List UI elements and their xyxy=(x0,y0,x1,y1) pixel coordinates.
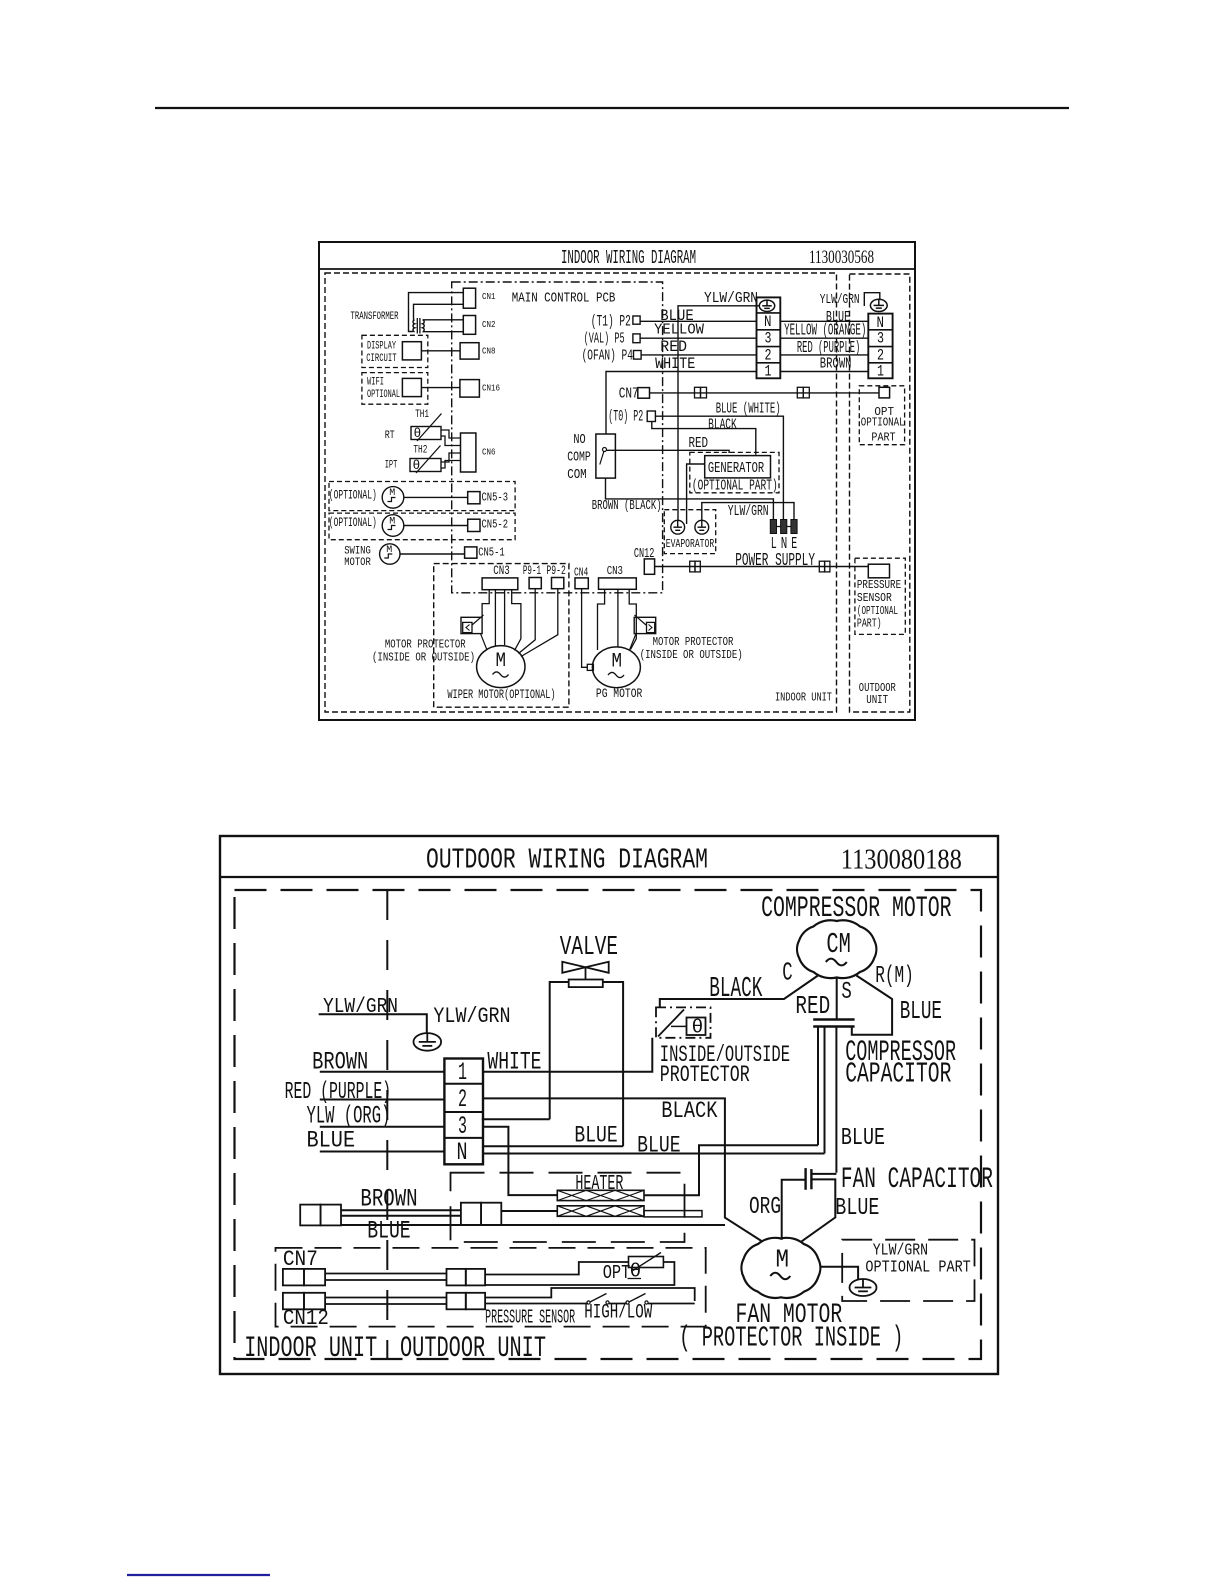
ORG wire to fan motor xyxy=(782,1180,806,1240)
svg-text:PART): PART) xyxy=(857,617,882,631)
CN12 connector xyxy=(283,1293,304,1310)
svg-text:CM: CM xyxy=(826,928,850,961)
svg-text:BLUE: BLUE xyxy=(900,997,942,1026)
wires thermistors to CN6 xyxy=(441,430,461,438)
svg-text:θ: θ xyxy=(630,1261,642,1283)
OPT optional part box xyxy=(859,386,904,445)
svg-text:S: S xyxy=(841,979,851,1006)
heater element 2 xyxy=(557,1206,644,1217)
svg-text:INDOOR UNIT: INDOOR UNIT xyxy=(244,1331,377,1365)
svg-text:BLACK: BLACK xyxy=(709,972,763,1005)
optional motor row CN5-2 xyxy=(329,513,515,540)
svg-text:CN1: CN1 xyxy=(482,291,496,302)
svg-text:(OPTIONAL: (OPTIONAL xyxy=(857,604,898,618)
WHITE wire to terminal 1 xyxy=(606,372,757,435)
earth ground outdoor xyxy=(414,1033,442,1051)
svg-text:(OFAN) P4: (OFAN) P4 xyxy=(582,349,633,365)
svg-text:YELLOW (ORANGE): YELLOW (ORANGE) xyxy=(784,321,866,340)
svg-text:FAN CAPACITOR: FAN CAPACITOR xyxy=(841,1162,993,1196)
svg-text:M: M xyxy=(389,515,395,526)
svg-text:CN3: CN3 xyxy=(607,564,623,578)
svg-text:MOTOR PROTECTOR: MOTOR PROTECTOR xyxy=(385,638,466,652)
svg-text:PROTECTOR: PROTECTOR xyxy=(660,1062,750,1088)
connector CN1 xyxy=(463,288,475,308)
row3 wire to heater xyxy=(483,1127,557,1195)
CN7/CN12 dashed box xyxy=(276,1248,706,1327)
svg-text:BLUE: BLUE xyxy=(841,1125,885,1152)
svg-text:3: 3 xyxy=(877,330,884,348)
svg-text:OUTDOOR WIRING DIAGRAM: OUTDOOR WIRING DIAGRAM xyxy=(426,844,708,877)
connector CN8 xyxy=(460,343,479,359)
OPT sensor wire xyxy=(485,1262,628,1275)
fan motor M xyxy=(741,1238,820,1298)
svg-text:M: M xyxy=(386,544,392,555)
svg-text:(T1) P2: (T1) P2 xyxy=(591,312,631,330)
svg-text:(OPTIONAL): (OPTIONAL) xyxy=(329,489,377,503)
indoor/outdoor separator dashed xyxy=(386,890,388,1359)
svg-text:P9-1: P9-1 xyxy=(523,564,541,578)
svg-text:GENERATOR: GENERATOR xyxy=(708,459,764,477)
svg-text:PART: PART xyxy=(871,431,895,445)
svg-text:HIGH/LOW: HIGH/LOW xyxy=(584,1301,652,1324)
YLW(ORG) wire xyxy=(320,1126,445,1128)
svg-text:ORG: ORG xyxy=(749,1194,781,1221)
outdoor dashed box xyxy=(235,890,982,1359)
svg-text:VALVE: VALVE xyxy=(560,932,618,962)
BLUE wire to terminal N xyxy=(640,320,756,322)
svg-text:θ: θ xyxy=(413,458,421,473)
svg-text:OPT: OPT xyxy=(603,1262,631,1284)
capacitor wire to fan capacitor xyxy=(835,1027,837,1173)
display circuit box xyxy=(362,335,428,367)
svg-text:CN5-2: CN5-2 xyxy=(482,518,509,532)
inline connector pair xyxy=(690,561,695,572)
BLUE(WHITE) wire to N plug xyxy=(655,416,783,519)
inline connector pair xyxy=(447,1269,466,1286)
fan motor ground wire xyxy=(820,1267,858,1279)
heater element 2 lead xyxy=(644,1211,702,1217)
R(M) wire to capacitor xyxy=(852,976,892,1035)
inline connector pair xyxy=(819,561,824,572)
bottom blue rule xyxy=(127,1574,270,1576)
outdoor unit dashed box (right strip) xyxy=(850,274,910,712)
RED(PURPLE) wire xyxy=(320,1099,445,1101)
wire display-CN8 xyxy=(421,350,460,352)
BLACK wire to generator xyxy=(652,422,756,455)
svg-text:1: 1 xyxy=(765,363,772,381)
BLUE wire to fan motor xyxy=(341,1224,725,1226)
connector P9-2 xyxy=(552,578,564,589)
svg-text:SENSOR: SENSOR xyxy=(857,591,892,605)
svg-text:( PROTECTOR INSIDE ): ( PROTECTOR INSIDE ) xyxy=(679,1322,903,1355)
compressor capacitor plates xyxy=(813,1018,854,1021)
YLW/GRN jumper right xyxy=(864,293,880,306)
YELLOW wire to terminal 3 xyxy=(640,337,756,339)
svg-text:INDOOR WIRING DIAGRAM: INDOOR WIRING DIAGRAM xyxy=(561,247,696,269)
BROWN(BLACK) wire to L plug xyxy=(606,478,774,519)
svg-text:TH2: TH2 xyxy=(413,445,427,457)
generator ground wire xyxy=(687,464,705,524)
indoor diagram outer frame xyxy=(319,242,915,720)
svg-text:NO: NO xyxy=(573,432,585,448)
heater dashed box xyxy=(451,1173,685,1242)
fan capacitor xyxy=(804,1168,806,1190)
connector CN4 xyxy=(575,578,588,589)
PG motor wires xyxy=(582,589,588,668)
svg-text:YLW/GRN: YLW/GRN xyxy=(820,293,860,308)
svg-text:CAPACITOR: CAPACITOR xyxy=(845,1058,951,1091)
svg-text:WIFI: WIFI xyxy=(367,377,384,389)
left terminal block xyxy=(757,297,781,378)
svg-text:YLW/GRN: YLW/GRN xyxy=(323,995,398,1019)
svg-text:YELLOW: YELLOW xyxy=(654,321,705,339)
wiper motor dashed box xyxy=(434,564,569,708)
svg-text:DISPLAY: DISPLAY xyxy=(367,341,396,353)
svg-text:BLUE (WHITE): BLUE (WHITE) xyxy=(716,399,781,417)
svg-text:TRANSFORMER: TRANSFORMER xyxy=(351,311,399,323)
svg-text:EVAPORATOR: EVAPORATOR xyxy=(666,537,714,551)
connector CN6 xyxy=(461,433,476,472)
cable connector pair 1 xyxy=(300,1205,320,1226)
outdoor diagram outer frame xyxy=(220,836,998,1374)
connector CN7 xyxy=(638,388,650,399)
YLW/GRN optional part box xyxy=(842,1240,974,1301)
connector CN12 xyxy=(644,559,654,574)
svg-text:MOTOR PROTECTOR: MOTOR PROTECTOR xyxy=(653,635,734,649)
valve body right xyxy=(603,982,623,1146)
svg-text:(OPTIONAL PART): (OPTIONAL PART) xyxy=(692,477,778,495)
inline connector pair xyxy=(695,387,701,398)
inside/outside protector xyxy=(656,1007,711,1037)
svg-text:θ: θ xyxy=(414,426,422,441)
connector CN5-2 xyxy=(468,519,480,531)
svg-text:IPT: IPT xyxy=(385,460,398,472)
valve wire N xyxy=(483,1145,623,1147)
svg-text:M: M xyxy=(776,1245,790,1275)
svg-text:M: M xyxy=(496,650,507,673)
connector CN3 PG xyxy=(599,578,637,589)
inline connector pair xyxy=(447,1293,466,1310)
svg-text:PRESSURE SENSOR: PRESSURE SENSOR xyxy=(485,1306,575,1328)
power supply plugs L N E xyxy=(770,520,776,534)
BLUE wire to fan motor xyxy=(801,1179,836,1242)
valve body left xyxy=(550,982,569,1119)
main control pcb dash-dot box xyxy=(452,282,663,593)
PG motor M xyxy=(592,647,640,688)
svg-text:RED: RED xyxy=(689,434,709,452)
svg-text:1: 1 xyxy=(458,1058,467,1087)
WHITE wire row1 xyxy=(483,1038,652,1072)
svg-text:YLW/GRN: YLW/GRN xyxy=(728,502,769,520)
svg-text:CN12: CN12 xyxy=(283,1305,329,1331)
connector CN2 xyxy=(463,316,475,335)
evaporator ground 2 xyxy=(695,520,709,534)
motor protector left xyxy=(461,617,482,633)
svg-text:POWER SUPPLY: POWER SUPPLY xyxy=(735,551,815,571)
connector CN3 xyxy=(482,578,518,590)
svg-text:CN16: CN16 xyxy=(482,382,500,393)
svg-text:INDOOR UNIT: INDOOR UNIT xyxy=(775,691,832,705)
svg-text:OPTIONAL: OPTIONAL xyxy=(367,389,400,401)
BROWN wire to heater xyxy=(501,1210,557,1212)
CN12 wire to pressure sensor xyxy=(655,566,869,568)
svg-text:CN2: CN2 xyxy=(482,319,496,330)
connector CN16 xyxy=(460,380,480,398)
wiper motor M xyxy=(477,646,525,688)
svg-text:BROWN: BROWN xyxy=(360,1185,417,1214)
svg-text:OUTDOOR UNIT: OUTDOOR UNIT xyxy=(400,1331,546,1365)
svg-text:BROWN: BROWN xyxy=(820,354,852,372)
evaporator box xyxy=(664,510,715,554)
BLUE wire xyxy=(320,1151,445,1153)
svg-text:RT: RT xyxy=(385,430,395,442)
svg-text:TH1: TH1 xyxy=(415,409,429,421)
HIGH/LOW upper wire xyxy=(485,1288,695,1301)
evaporator ground 1 xyxy=(671,520,685,534)
svg-text:BLUE: BLUE xyxy=(637,1132,681,1158)
svg-text:PG MOTOR: PG MOTOR xyxy=(596,686,643,701)
svg-text:HEATER: HEATER xyxy=(575,1173,623,1196)
cable connector pair 2 xyxy=(461,1203,481,1225)
inline connector pair xyxy=(797,387,803,398)
fan cap to BLUE riser xyxy=(811,1173,836,1175)
svg-text:1130030568: 1130030568 xyxy=(809,247,874,268)
BLACK wire row2 to fan motor xyxy=(483,1098,761,1241)
svg-text:OPTIONAL: OPTIONAL xyxy=(861,416,905,430)
svg-text:WHITE: WHITE xyxy=(655,355,695,373)
YLW/GRN wire to E plug xyxy=(702,503,794,521)
generator optional part xyxy=(690,452,779,492)
wifi optional box xyxy=(362,373,428,405)
svg-text:YLW/GRN: YLW/GRN xyxy=(433,1004,510,1029)
svg-text:OPTIONAL PART: OPTIONAL PART xyxy=(865,1259,970,1278)
pressure sensor optional part box xyxy=(855,558,905,634)
outdoor terminal block xyxy=(444,1059,483,1165)
svg-text:CN3: CN3 xyxy=(493,564,510,578)
HIGH/LOW lower wire xyxy=(485,1303,588,1305)
svg-text:COM: COM xyxy=(567,467,587,483)
svg-text:(INSIDE OR OUTSIDE): (INSIDE OR OUTSIDE) xyxy=(640,648,743,662)
OPT thermal sensor xyxy=(629,1257,664,1268)
svg-text:MAIN CONTROL PCB: MAIN CONTROL PCB xyxy=(512,291,616,307)
transformer xyxy=(409,293,464,332)
svg-text:BROWN (BLACK): BROWN (BLACK) xyxy=(592,498,662,514)
RED wire to terminal 2 xyxy=(641,354,756,356)
wire wifi-CN16 xyxy=(421,387,460,389)
BROWN wire xyxy=(320,1071,445,1073)
svg-text:2: 2 xyxy=(458,1085,467,1114)
svg-text:COMPRESSOR MOTOR: COMPRESSOR MOTOR xyxy=(761,891,951,925)
svg-text:BLUE: BLUE xyxy=(367,1217,411,1246)
svg-text:UNIT: UNIT xyxy=(866,693,888,707)
capacitor wire to heater riser xyxy=(817,1027,819,1146)
BLUE wire N to capacitor xyxy=(483,1153,825,1155)
svg-text:COMP: COMP xyxy=(567,450,591,466)
fan motor earth ground xyxy=(850,1279,877,1296)
svg-text:CN5-1: CN5-1 xyxy=(478,546,505,560)
YLW/GRN wire down to evaporator xyxy=(678,306,759,521)
svg-text:1: 1 xyxy=(877,363,884,381)
svg-text:BLACK: BLACK xyxy=(708,418,737,434)
svg-text:RED: RED xyxy=(795,992,830,1021)
svg-text:(INSIDE OR OUTSIDE): (INSIDE OR OUTSIDE) xyxy=(372,650,475,664)
svg-text:BLUE: BLUE xyxy=(574,1123,617,1149)
svg-text:θ: θ xyxy=(692,1017,704,1039)
svg-text:CN8: CN8 xyxy=(482,345,496,356)
valve wire row3 xyxy=(482,1118,550,1120)
svg-text:CN7: CN7 xyxy=(619,385,639,403)
svg-text:(VAL) P5: (VAL) P5 xyxy=(584,332,625,348)
connector CN5-3 xyxy=(468,492,480,504)
top horizontal rule xyxy=(155,107,1069,109)
svg-text:SWING: SWING xyxy=(344,546,371,558)
svg-text:1130080188: 1130080188 xyxy=(841,844,962,876)
capacitor wire to N riser xyxy=(824,1027,826,1154)
C wire to protector xyxy=(660,976,818,1008)
svg-text:3: 3 xyxy=(458,1112,467,1141)
svg-text:N: N xyxy=(764,313,772,331)
svg-text:MOTOR: MOTOR xyxy=(344,557,371,569)
S wire to capacitor xyxy=(836,977,838,1019)
wiper motor wires xyxy=(482,590,489,616)
right terminal block xyxy=(868,314,892,379)
compressor motor CM xyxy=(797,920,876,978)
optional motor row CN5-3 xyxy=(329,482,515,511)
CN7 connector xyxy=(283,1269,304,1286)
svg-text:CN6: CN6 xyxy=(482,446,496,457)
connector P9-1 xyxy=(529,578,541,589)
svg-text:WIPER MOTOR(OPTIONAL): WIPER MOTOR(OPTIONAL) xyxy=(447,687,555,702)
svg-text:RED: RED xyxy=(660,338,687,356)
RED wire to generator xyxy=(607,450,730,453)
svg-text:P9-2: P9-2 xyxy=(546,564,565,578)
ground terminal right block xyxy=(870,299,887,311)
ground terminal left block xyxy=(759,300,774,311)
svg-text:BLUE: BLUE xyxy=(835,1195,879,1222)
svg-text:3: 3 xyxy=(765,330,772,348)
indoor unit dashed box xyxy=(325,273,837,712)
svg-text:YLW/GRN: YLW/GRN xyxy=(704,289,758,307)
svg-text:M: M xyxy=(612,651,623,674)
svg-text:N: N xyxy=(457,1138,468,1167)
interconnect wires between terminal blocks xyxy=(780,320,868,322)
svg-text:BLACK: BLACK xyxy=(661,1098,718,1124)
connector CN5-1 xyxy=(465,547,477,558)
svg-text:R(M): R(M) xyxy=(875,963,914,990)
CN7 wire to OPT part xyxy=(650,392,880,394)
svg-text:CN5-3: CN5-3 xyxy=(482,490,509,504)
heater element 1 xyxy=(557,1190,644,1200)
svg-text:CIRCUIT: CIRCUIT xyxy=(366,353,396,365)
heater wire to capacitor xyxy=(644,1145,818,1195)
svg-text:M: M xyxy=(389,487,395,498)
motor protector right xyxy=(634,617,656,633)
svg-text:WHITE: WHITE xyxy=(487,1047,541,1076)
YLW/GRN ground wire xyxy=(319,1014,427,1033)
svg-text:C: C xyxy=(782,958,792,987)
svg-text:(T0) P2: (T0) P2 xyxy=(608,408,643,426)
svg-text:(OPTIONAL): (OPTIONAL) xyxy=(329,516,377,530)
